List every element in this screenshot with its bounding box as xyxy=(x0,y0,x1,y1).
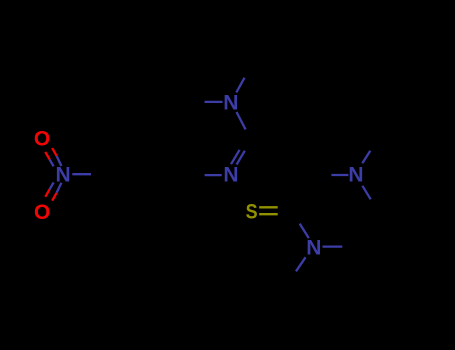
nitro N=O lower double bond (red half near O, blue half near N) xyxy=(45,189,49,197)
nitro N=O upper double bond (red half near O, blue half near N) xyxy=(45,152,49,160)
wire Nb-CH3 xyxy=(296,257,306,271)
svg-text:O: O xyxy=(34,201,50,224)
C2=N3 double bond (main stroke) xyxy=(237,151,245,165)
wire N1-C8a xyxy=(205,101,223,103)
wire nitro N to ring C6 xyxy=(72,173,91,175)
wire Nb-C(=S) xyxy=(300,224,309,239)
svg-text:N: N xyxy=(223,164,238,187)
svg-text:N: N xyxy=(348,164,363,187)
svg-text:O: O xyxy=(34,128,50,151)
C=S double bond strokes xyxy=(259,206,278,208)
C2=N3 double bond (inner stroke) xyxy=(231,150,240,164)
wire CH-Nr xyxy=(331,174,348,176)
wire Nr-CH3 xyxy=(362,151,370,164)
wire N1-C2 xyxy=(237,112,246,130)
wire N1-CH3 xyxy=(236,78,244,93)
svg-text:S: S xyxy=(246,201,258,224)
wire Nr-CH2 xyxy=(362,186,370,200)
svg-text:N: N xyxy=(56,164,71,187)
wire Nb-CH2 xyxy=(323,245,343,247)
svg-text:N: N xyxy=(223,91,238,114)
wire N3-C4 xyxy=(205,174,222,176)
svg-text:N: N xyxy=(306,237,321,260)
